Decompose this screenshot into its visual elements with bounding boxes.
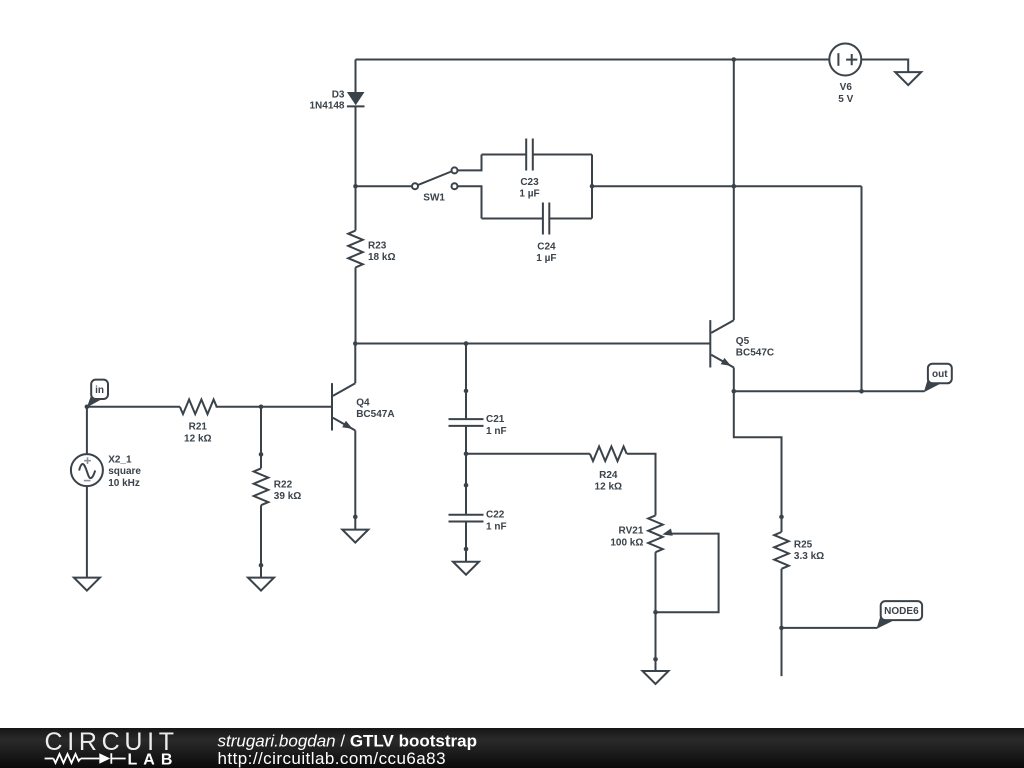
svg-text:X2_1: X2_1: [108, 455, 132, 466]
svg-text:1 nF: 1 nF: [486, 521, 507, 532]
wire in to Q4 base: [87, 406, 332, 408]
junction node out: [859, 389, 864, 394]
svg-text:100 kΩ: 100 kΩ: [610, 537, 643, 548]
source X2_1: [71, 454, 142, 489]
wire C24 bottom rail: [482, 218, 593, 220]
resistor R24: [590, 447, 627, 493]
svg-text:C23: C23: [520, 177, 539, 188]
wire Q4 collector stub: [354, 344, 356, 384]
wire right drop to out: [861, 186, 863, 391]
junction R22 top terminal: [259, 452, 264, 457]
svg-text:5 V: 5 V: [838, 94, 853, 105]
ground at RV21: [643, 671, 669, 684]
wire V6 to ground: [861, 60, 908, 73]
svg-text:1N4148: 1N4148: [309, 101, 344, 112]
svg-text:R25: R25: [794, 540, 813, 551]
svg-text:in: in: [95, 385, 104, 396]
svg-text:12 kΩ: 12 kΩ: [184, 433, 211, 444]
svg-text:C22: C22: [486, 510, 505, 521]
junction node box right: [590, 184, 595, 189]
junction node RV21 wiper: [653, 610, 658, 615]
wire Q5 emitter drop: [733, 368, 735, 392]
ground at R22: [248, 578, 274, 591]
svg-text:SW1: SW1: [423, 192, 445, 203]
wire emitter to R25: [734, 391, 782, 532]
ground at V6: [895, 72, 921, 85]
svg-text:out: out: [932, 369, 948, 380]
svg-text:1 µF: 1 µF: [536, 253, 556, 264]
wire mid rail to right: [592, 185, 862, 187]
diode D3: [309, 89, 364, 111]
transistor Q5: [710, 320, 774, 367]
switch SW1: [412, 167, 458, 203]
svg-text:1 nF: 1 nF: [486, 426, 507, 437]
wire SW1 lower throw to box: [458, 186, 482, 218]
voltage source V6: [829, 44, 861, 105]
node flag in: [87, 380, 108, 408]
junction node C21-R24: [464, 452, 469, 457]
wire Q5 collector rail: [733, 60, 735, 321]
capacitor C22: [449, 510, 507, 533]
wire D3 anode stem: [355, 60, 357, 93]
junction R22 bottom terminal: [259, 563, 264, 568]
wire node to SW1: [356, 185, 413, 187]
node flag NODE6: [877, 601, 923, 629]
wire R24 to RV21: [627, 454, 656, 516]
svg-text:R24: R24: [599, 470, 618, 481]
ground at C22: [453, 562, 479, 575]
svg-text:BC547C: BC547C: [736, 348, 774, 359]
svg-text:R21: R21: [189, 422, 208, 433]
junction node R25-NODE6: [779, 626, 784, 631]
node flag out: [924, 364, 952, 393]
wire C23 top rail: [482, 154, 593, 156]
wire R22 branch: [260, 407, 262, 578]
svg-text:C24: C24: [537, 241, 556, 252]
potentiometer RV21: [610, 515, 672, 552]
junction node top rail: [732, 57, 737, 62]
svg-text:3.3 kΩ: 3.3 kΩ: [794, 551, 824, 562]
resistor R25: [774, 532, 824, 569]
wire R25 lower stub: [781, 569, 783, 676]
footer bar: [0, 728, 1024, 768]
wire SW1 upper throw to box: [458, 155, 482, 171]
svg-text:39 kΩ: 39 kΩ: [274, 491, 301, 502]
svg-text:R22: R22: [274, 479, 293, 490]
wire X2_1 to ground: [86, 486, 88, 577]
wire in to X2_1: [86, 407, 88, 454]
junction node base bus: [353, 341, 358, 346]
wire Q4 emitter to ground: [354, 431, 356, 530]
wire C21 branch: [465, 344, 467, 454]
capacitor C23: [519, 139, 539, 200]
svg-text:LAB: LAB: [128, 751, 179, 768]
junction node C21 top: [464, 341, 469, 346]
svg-text:BC547A: BC547A: [356, 409, 394, 420]
wire to R24: [466, 453, 590, 455]
junction R25 top terminal: [779, 515, 784, 520]
capacitor C21: [449, 414, 507, 437]
capacitor C24: [536, 203, 556, 265]
wire to NODE6: [782, 627, 878, 629]
junction node mid rail: [732, 184, 737, 189]
junction C21 terminal: [464, 389, 469, 394]
svg-text:http://circuitlab.com/ccu6a83: http://circuitlab.com/ccu6a83: [218, 749, 447, 768]
resistor R23: [348, 231, 395, 268]
svg-text:NODE6: NODE6: [884, 606, 919, 617]
junction C22 terminal: [464, 483, 469, 488]
svg-text:10 kHz: 10 kHz: [108, 478, 140, 489]
wire RV21 to ground: [655, 552, 657, 671]
wire R23 to node: [355, 267, 357, 343]
junction node in: [85, 405, 90, 410]
svg-text:square: square: [108, 466, 141, 477]
wire top rail: [356, 59, 830, 61]
svg-text:D3: D3: [332, 89, 345, 100]
svg-text:V6: V6: [840, 82, 853, 93]
svg-text:R23: R23: [368, 240, 387, 251]
resistor R22: [254, 468, 302, 505]
svg-text:strugari.bogdan / GTLV bootstr: strugari.bogdan / GTLV bootstrap: [218, 731, 478, 750]
resistor R21: [180, 400, 217, 445]
junction node SW1: [353, 184, 358, 189]
junction C22 bottom terminal: [464, 547, 469, 552]
svg-text:C21: C21: [486, 414, 505, 425]
wire box right side: [591, 155, 593, 219]
transistor Q4: [332, 383, 395, 430]
svg-text:18 kΩ: 18 kΩ: [368, 252, 395, 263]
wire base bus: [355, 343, 710, 345]
svg-text:Q5: Q5: [736, 336, 750, 347]
wire out node: [734, 390, 925, 392]
wire RV21 wiper loop: [656, 534, 719, 613]
junction node Q5 emitter: [732, 389, 737, 394]
svg-text:Q4: Q4: [356, 397, 370, 408]
junction node R21-R22: [259, 405, 264, 410]
svg-text:12 kΩ: 12 kΩ: [595, 482, 622, 493]
ground at X2_1: [74, 578, 100, 591]
wire D3 cathode to R23: [355, 106, 357, 230]
logo doodle resistor-diode: [45, 753, 126, 763]
junction Q4 emitter terminal: [353, 515, 358, 520]
svg-text:RV21: RV21: [619, 526, 644, 537]
ground at Q4 emitter: [342, 530, 368, 543]
svg-text:1 µF: 1 µF: [519, 189, 539, 200]
junction RV21 bottom terminal: [653, 657, 658, 662]
wire C22 branch: [465, 454, 467, 562]
